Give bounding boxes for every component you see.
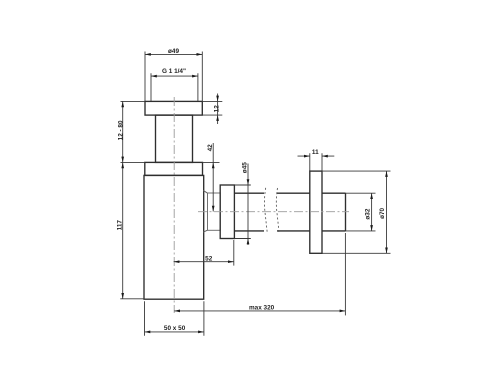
extension lines 11 [310,153,322,170]
dimension line 117 [122,162,124,298]
extension line flange top (shared, left and right) [121,100,223,102]
extension lines dia49 [145,52,202,102]
extension line flange bottom right [202,114,222,116]
extension lines dia45 [234,185,250,239]
svg-text:11: 11 [312,149,319,156]
extension lines 50x50 [145,301,204,336]
extension lines dia32 [346,193,376,231]
arrow 12-80 bottom [121,157,124,163]
svg-text:G 1 1/4": G 1 1/4" [162,68,186,75]
svg-text:42: 42 [207,144,214,152]
extension lines dia70 [322,171,391,253]
arrow dia49 right [197,53,203,56]
outlet taper cone [203,190,207,232]
extension line body bottom left [120,298,144,300]
inlet flange (top nut) [145,101,202,115]
extension line pipe end for max320 [344,233,346,315]
dimension line 52 [174,261,234,263]
arrow 12-80 top [121,101,124,107]
arrow 42 bottom (pointing down at centerline) [212,206,215,212]
arrow dia45 bottom (outside, pointing up) [247,239,250,245]
dimension line 12-80 [122,101,124,162]
arrow dia70 top [385,171,388,177]
arrow dia70 bottom [385,248,388,254]
dimension line dia70 [386,171,388,253]
svg-text:12: 12 [213,105,220,113]
extension lines G 1 1/4 [151,73,198,101]
svg-text:ø32: ø32 [364,208,371,219]
dimension line 42 [212,143,214,212]
svg-text:ø49: ø49 [168,48,179,55]
wall flange [310,171,322,253]
svg-text:ø70: ø70 [379,207,386,218]
svg-text:50 x 50: 50 x 50 [164,325,186,332]
arrow max320 left (pointing left at centerline) [174,310,180,313]
pipe break line right [276,188,279,234]
arrow dia49 left [145,53,151,56]
dimension line dia45 [247,164,249,246]
vertical centerline of body [173,97,175,313]
arrow 12 bottom (outside, pointing up) [216,115,219,121]
horizontal centerline of outlet [198,211,349,213]
svg-text:max 320: max 320 [249,305,275,312]
arrow 42 top (pointing up at collar line) [212,162,215,168]
inlet pipe (telescopic tube) [156,115,193,162]
arrow max320 right (pointing right at wall line) [340,310,346,313]
extension line nut right for 52 [233,240,235,266]
outlet compression nut [220,185,234,239]
dimension line 11 [298,155,335,157]
arrow 50x50 right [198,331,204,334]
outlet pipe segment right of break with end cap [277,193,346,231]
pipe break line left [264,188,267,234]
arrow dia32 bottom [370,225,373,231]
body top collar nut [145,162,203,175]
svg-text:12 - 80: 12 - 80 [118,120,125,140]
arrow 11 right (outside, pointing left) [322,155,328,158]
arrow dia45 top (outside, pointing down) [247,179,250,185]
outlet pipe segment left of break [234,193,264,231]
dimension line 50x50 [145,331,204,333]
trap body [144,175,204,299]
svg-text:52: 52 [205,255,213,262]
arrow G114 right [192,75,198,78]
arrow G114 left [151,75,157,78]
arrow 52 left (pointing left at centerline) [174,260,180,263]
dimension line max320 [174,310,345,312]
arrow dia32 top [370,193,373,199]
dimension line dia49 [145,53,202,55]
dimension line 12 vertical [217,94,219,125]
svg-text:117: 117 [116,220,123,231]
extension line collar top (shared, left and right) [121,161,220,163]
arrow 117 bottom [121,293,124,299]
svg-text:ø45: ø45 [241,162,248,173]
arrow 52 right (pointing right) [228,260,234,263]
dimension line dia32 [371,193,373,231]
arrow 12 top (outside, pointing down) [216,96,219,102]
arrow 117 top [121,162,124,168]
outlet cylinder [208,193,221,230]
dimension line G 1 1/4 [151,75,198,77]
arrow 50x50 left [145,331,151,334]
arrow 11 left (outside, pointing right) [304,155,310,158]
